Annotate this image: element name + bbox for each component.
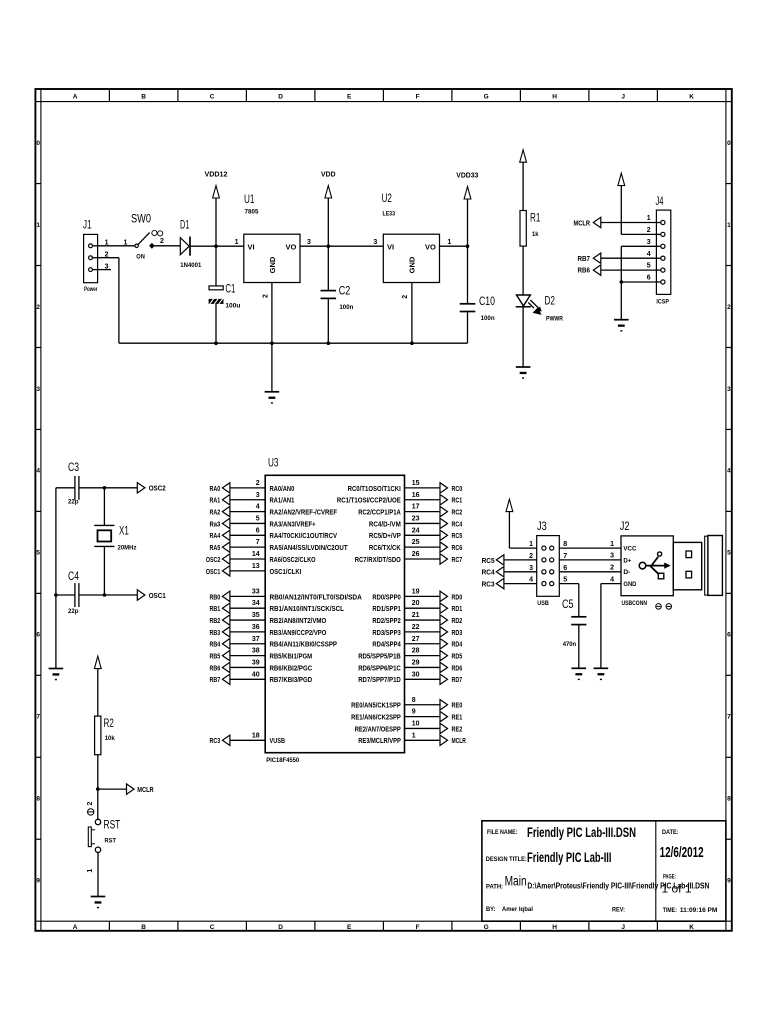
junction C4 left (54, 593, 58, 597)
power flag VDD33 (456, 173, 478, 247)
junction C1-rail (214, 341, 218, 345)
wire J1 pin2 down to ground rail (98, 258, 119, 344)
svg-text:1: 1 (412, 732, 416, 739)
svg-text:D+: D+ (623, 557, 631, 564)
svg-text:H: H (552, 924, 557, 931)
svg-text:20MHz: 20MHz (118, 545, 138, 552)
wire U1 VO to U2 VI (300, 245, 383, 247)
svg-text:7: 7 (36, 714, 40, 721)
svg-text:E: E (347, 924, 352, 931)
terminal RA2 / U3 pin 4 (210, 504, 338, 517)
svg-text:2: 2 (610, 565, 614, 572)
svg-text:B: B (141, 93, 146, 100)
svg-text:B: B (141, 924, 146, 931)
svg-text:5: 5 (256, 515, 260, 522)
svg-text:U1: U1 (244, 194, 255, 206)
svg-text:RC3: RC3 (482, 580, 495, 589)
ground symbol below J2 (594, 667, 609, 669)
svg-text:35: 35 (252, 612, 260, 619)
svg-text:RD2/SPP2: RD2/SPP2 (372, 616, 400, 625)
svg-text:RST: RST (104, 820, 121, 832)
svg-text:J3: J3 (537, 521, 547, 533)
terminal RC4 at J3 (482, 567, 537, 577)
svg-text:OSC1: OSC1 (149, 591, 166, 600)
svg-text:OSC2: OSC2 (149, 484, 166, 493)
svg-text:27: 27 (412, 636, 420, 643)
svg-text:24: 24 (412, 527, 420, 534)
svg-text:RA1/AN1: RA1/AN1 (270, 496, 295, 505)
svg-text:RC5/D+/VP: RC5/D+/VP (369, 531, 401, 540)
svg-text:RA1: RA1 (210, 496, 221, 505)
svg-text:C2: C2 (339, 286, 351, 298)
svg-text:12/6/2012: 12/6/2012 (660, 845, 704, 861)
svg-text:RD2: RD2 (452, 616, 463, 625)
ground symbol below RST (91, 896, 106, 898)
svg-text:Ra3: Ra3 (210, 519, 221, 528)
svg-text:2: 2 (87, 801, 94, 805)
svg-text:J: J (621, 93, 625, 100)
wire U1 GND down (271, 283, 273, 344)
capacitor C5 470n (562, 599, 586, 669)
svg-text:22: 22 (412, 624, 420, 631)
svg-text:0: 0 (727, 140, 731, 147)
svg-text:OSC2: OSC2 (206, 555, 220, 564)
svg-text:Friendly PIC Lab-III: Friendly PIC Lab-III (527, 850, 612, 865)
svg-text:D1: D1 (180, 220, 189, 232)
svg-text:18: 18 (252, 732, 260, 739)
wire J3 pin6 to J2 D- (559, 571, 621, 573)
svg-text:ICSP: ICSP (656, 298, 669, 305)
terminal MCLR at R2 (98, 784, 154, 794)
svg-text:D2: D2 (545, 296, 556, 308)
svg-text:G: G (484, 93, 489, 100)
svg-text:33: 33 (252, 588, 260, 595)
resistor R2 10k (95, 716, 115, 755)
terminal RB2 / U3 pin 35 (210, 612, 327, 625)
svg-text:C: C (210, 924, 215, 931)
svg-text:RC5: RC5 (482, 556, 495, 565)
svg-text:GND: GND (408, 256, 417, 273)
power flag at J3 pin1 (506, 499, 537, 548)
svg-text:1k: 1k (532, 231, 539, 238)
svg-text:LE33: LE33 (383, 210, 396, 217)
svg-text:VDD12: VDD12 (205, 171, 228, 178)
svg-text:7: 7 (727, 714, 731, 721)
wire D1 to U1 VI (190, 245, 244, 247)
svg-text:RD0/SPP0: RD0/SPP0 (372, 592, 400, 601)
wire D2 to ground (522, 307, 524, 367)
svg-text:C1: C1 (225, 283, 235, 295)
wire J4 pin3 to ground (621, 246, 656, 319)
svg-text:9: 9 (727, 878, 731, 885)
svg-text:7: 7 (563, 553, 567, 560)
svg-text:RST: RST (105, 837, 117, 844)
svg-text:BY:: BY: (486, 906, 496, 913)
svg-text:30: 30 (412, 671, 420, 678)
svg-text:3: 3 (529, 565, 533, 572)
ground symbol below U1 (265, 343, 280, 403)
svg-text:PIC18F4550: PIC18F4550 (266, 757, 299, 764)
terminal RC3 at J3 (482, 578, 537, 588)
svg-text:J1: J1 (83, 220, 92, 232)
svg-text:1N4001: 1N4001 (180, 262, 201, 269)
power flag VDD (321, 171, 336, 246)
svg-text:A: A (73, 93, 78, 100)
svg-text:3: 3 (727, 386, 731, 393)
wire U2 VO to VDD33 node (440, 245, 468, 247)
svg-text:VDD: VDD (321, 171, 336, 178)
title block (482, 821, 726, 921)
svg-text:RC2/CCP1/P1A: RC2/CCP1/P1A (358, 508, 401, 517)
svg-text:USB: USB (537, 600, 549, 607)
svg-text:19: 19 (412, 588, 420, 595)
resistor R1 1k (520, 211, 540, 247)
svg-text:FILE NAME:: FILE NAME: (487, 829, 518, 836)
terminal RC3 / U3 pin 18 VUSB (210, 732, 286, 745)
wire U2 GND down (411, 283, 413, 344)
ground symbol below C5 (572, 667, 587, 669)
svg-text:D: D (278, 93, 283, 100)
svg-text:C: C (210, 93, 215, 100)
svg-text:U2: U2 (382, 193, 392, 205)
svg-text:ON: ON (136, 253, 145, 260)
svg-text:H: H (552, 93, 557, 100)
svg-text:6: 6 (563, 565, 567, 572)
svg-text:RC4/D-/VM: RC4/D-/VM (369, 519, 401, 528)
power flag above R1 (520, 150, 527, 211)
svg-text:MCLR: MCLR (452, 736, 467, 745)
svg-text:RE2: RE2 (452, 724, 463, 733)
svg-text:RD7/SPP7/P1D: RD7/SPP7/P1D (358, 675, 401, 684)
svg-text:PWWR: PWWR (546, 315, 563, 322)
terminal RC5 / U3 pin 24 (369, 527, 462, 540)
svg-text:SW0: SW0 (131, 214, 151, 226)
svg-text:29: 29 (412, 659, 420, 666)
wire J1 pin3 stub (98, 269, 111, 271)
terminal RC0 / U3 pin 15 (348, 480, 463, 493)
svg-text:3: 3 (610, 553, 614, 560)
svg-text:21: 21 (412, 612, 420, 619)
svg-text:RD3/SPP3: RD3/SPP3 (372, 628, 400, 637)
wire J2 GND to ground (601, 584, 621, 669)
svg-text:C3: C3 (68, 462, 79, 474)
svg-text:25: 25 (412, 539, 420, 546)
svg-text:1: 1 (447, 239, 451, 246)
power flag above R2 (94, 656, 101, 716)
svg-text:DESIGN TITLE:: DESIGN TITLE: (486, 856, 527, 863)
terminal RC1 / U3 pin 16 (337, 492, 462, 505)
svg-text:VCC: VCC (623, 546, 636, 553)
svg-text:C5: C5 (562, 599, 574, 611)
svg-text:4: 4 (36, 468, 40, 475)
svg-text:36: 36 (252, 624, 260, 631)
svg-text:470n: 470n (563, 641, 577, 648)
wire crystal ground leg (55, 488, 57, 669)
svg-text:RA2/AN2/VREF-/CVREF: RA2/AN2/VREF-/CVREF (270, 508, 338, 517)
svg-text:Friendly PIC Lab-III.DSN: Friendly PIC Lab-III.DSN (527, 825, 636, 840)
svg-text:RC7/RX/DT/SDO: RC7/RX/DT/SDO (355, 555, 401, 564)
svg-text:6: 6 (647, 275, 651, 282)
svg-text:USBCONN: USBCONN (622, 600, 648, 607)
svg-text:Main: Main (505, 874, 527, 889)
svg-text:10: 10 (412, 720, 420, 727)
svg-text:2: 2 (727, 304, 731, 311)
svg-text:RB5/KBI1/PGM: RB5/KBI1/PGM (270, 652, 313, 661)
svg-text:RC2: RC2 (452, 508, 463, 517)
wire J4 pin2 (621, 233, 656, 235)
terminal RD0 / U3 pin 19 (372, 588, 462, 601)
terminal RD1 / U3 pin 20 (372, 600, 462, 613)
svg-text:100n: 100n (339, 304, 353, 311)
terminal RD6 / U3 pin 29 (358, 659, 462, 672)
svg-text:RC0: RC0 (452, 484, 463, 493)
svg-text:4: 4 (610, 576, 614, 583)
terminal RC2 / U3 pin 17 (358, 504, 462, 517)
capacitor C3 22p (68, 462, 79, 506)
svg-text:8: 8 (412, 697, 416, 704)
junction J4 gnd net (620, 280, 624, 284)
svg-text:RA4/T0CKI/C1OUT/RCV: RA4/T0CKI/C1OUT/RCV (270, 531, 338, 540)
svg-text:11:09:16 PM: 11:09:16 PM (680, 907, 718, 914)
terminal RB0 / U3 pin 33 (210, 588, 362, 601)
svg-text:RD6/SPP6/P1C: RD6/SPP6/P1C (358, 663, 401, 672)
svg-text:1 of 1: 1 of 1 (662, 882, 692, 896)
terminal RD3 / U3 pin 22 (372, 624, 462, 637)
svg-text:VUSB: VUSB (270, 736, 286, 745)
terminal RA4 / U3 pin 6 (210, 527, 338, 540)
svg-text:RB2: RB2 (210, 616, 221, 625)
svg-text:38: 38 (252, 648, 260, 655)
connector J1 (83, 220, 109, 293)
svg-text:RB3/AN9/CCP2/VPO: RB3/AN9/CCP2/VPO (270, 628, 327, 637)
svg-text:RD0: RD0 (452, 592, 463, 601)
svg-text:VDD33: VDD33 (456, 173, 478, 180)
terminal OSC2 / U3 pin 14 (206, 551, 316, 564)
svg-text:34: 34 (252, 600, 260, 607)
svg-text:VO: VO (425, 242, 436, 251)
svg-text:RB0/AN12/INT0/FLT0/SDI/SDA: RB0/AN12/INT0/FLT0/SDI/SDA (270, 592, 362, 601)
svg-text:F: F (416, 924, 420, 931)
svg-text:RC5: RC5 (452, 531, 463, 540)
svg-text:RA2: RA2 (210, 508, 221, 517)
svg-text:39: 39 (252, 659, 260, 666)
USB trident icon (639, 552, 670, 579)
svg-text:E: E (347, 93, 352, 100)
terminal RB6 at J4 (578, 265, 657, 275)
junction X1 bottom (103, 593, 107, 597)
terminal RA1 / U3 pin 3 (210, 492, 295, 505)
terminal RC5 at J3 (482, 555, 537, 565)
svg-text:RB1/AN10/INT1/SCK/SCL: RB1/AN10/INT1/SCK/SCL (270, 604, 345, 613)
svg-text:J: J (621, 924, 625, 931)
terminal RB3 / U3 pin 36 (210, 624, 327, 637)
svg-text:5: 5 (36, 550, 40, 557)
svg-text:RB6/KBI2/PGC: RB6/KBI2/PGC (270, 663, 313, 672)
power flag at J4 pin2 (618, 173, 625, 234)
svg-text:D-: D- (623, 569, 630, 576)
svg-text:VO: VO (285, 242, 296, 251)
svg-text:1: 1 (235, 239, 239, 246)
svg-text:1: 1 (529, 541, 533, 548)
terminal OSC2 (137, 483, 165, 493)
svg-text:RA5: RA5 (210, 543, 221, 552)
terminal RB7 / U3 pin 40 (210, 671, 313, 684)
svg-text:RA0/AN0: RA0/AN0 (270, 484, 295, 493)
junction X1 top (103, 486, 107, 490)
svg-text:4: 4 (529, 577, 533, 584)
svg-text:15: 15 (412, 480, 420, 487)
svg-text:RB6: RB6 (578, 266, 591, 275)
svg-text:40: 40 (252, 671, 260, 678)
svg-text:Power: Power (84, 286, 98, 293)
svg-text:16: 16 (412, 492, 420, 499)
junction node VDD33 (466, 244, 470, 248)
svg-text:3: 3 (36, 386, 40, 393)
svg-text:RE3/MCLR/VPP: RE3/MCLR/VPP (358, 736, 401, 745)
polarity marks (656, 604, 672, 610)
push button RST (87, 801, 120, 872)
terminal Ra3 / U3 pin 5 (210, 515, 316, 528)
terminal RE1 / U3 pin 9 (351, 709, 462, 722)
wire SW0 to D1 (154, 245, 180, 247)
svg-text:G: G (484, 924, 489, 931)
junction U2GND-rail (410, 341, 414, 345)
svg-text:DATE:: DATE: (662, 829, 679, 836)
svg-text:5: 5 (647, 263, 651, 270)
svg-text:J2: J2 (620, 521, 630, 533)
diode D1 1N4001 (180, 220, 202, 269)
svg-text:Amer Iqbal: Amer Iqbal (502, 906, 533, 913)
svg-text:RC1/T1OSI/CCP2/UOE: RC1/T1OSI/CCP2/UOE (337, 496, 401, 505)
svg-text:RB5: RB5 (210, 652, 221, 661)
svg-text:RE1: RE1 (452, 713, 463, 722)
ground symbol below D2 (516, 366, 531, 368)
capacitor C2 100n (321, 246, 354, 343)
svg-text:D: D (278, 924, 283, 931)
terminal RC7 / U3 pin 26 (355, 551, 463, 564)
junction node VDD (327, 244, 331, 248)
terminal RA0 / U3 pin 2 (210, 480, 295, 493)
svg-text:26: 26 (412, 551, 420, 558)
svg-text:RB3: RB3 (210, 628, 221, 637)
svg-text:RC4: RC4 (452, 519, 463, 528)
svg-text:RB4: RB4 (210, 640, 221, 649)
svg-text:K: K (689, 924, 694, 931)
svg-text:J4: J4 (656, 196, 664, 208)
svg-text:5: 5 (727, 550, 731, 557)
svg-text:PATH:: PATH: (486, 883, 503, 890)
svg-text:RE1/AN6/CK2SPP: RE1/AN6/CK2SPP (351, 713, 401, 722)
capacitor C1 100u (209, 246, 241, 343)
svg-text:R2: R2 (104, 718, 114, 730)
wire J3 pin8 to J2 VCC (559, 547, 621, 549)
svg-text:6: 6 (256, 527, 260, 534)
svg-text:3: 3 (256, 492, 260, 499)
regulator U2 LE33 (373, 193, 451, 299)
svg-text:GND: GND (268, 256, 277, 273)
svg-text:RB7/KBI3/PGD: RB7/KBI3/PGD (270, 675, 313, 684)
power flag VDD12 (205, 171, 228, 246)
svg-text:RC7: RC7 (452, 555, 463, 564)
svg-text:2: 2 (529, 553, 533, 560)
svg-text:RB7: RB7 (578, 254, 591, 263)
ground symbol crystal (49, 668, 64, 670)
terminal RC4 / U3 pin 23 (369, 515, 463, 528)
svg-text:1: 1 (87, 869, 94, 873)
svg-text:2: 2 (36, 304, 40, 311)
svg-text:REV:: REV: (612, 907, 625, 914)
svg-text:5: 5 (563, 577, 567, 584)
regulator U1 7805 (235, 194, 311, 298)
svg-text:MCLR: MCLR (574, 218, 591, 227)
svg-text:8: 8 (563, 541, 567, 548)
svg-text:1: 1 (647, 215, 651, 222)
wire J3 pin5 to C5 (559, 584, 579, 617)
wire C4 left (56, 594, 75, 596)
svg-text:MCLR: MCLR (137, 785, 154, 794)
terminal RE0 / U3 pin 8 (351, 697, 462, 710)
svg-text:3: 3 (647, 239, 651, 246)
svg-text:RC6/TX/CK: RC6/TX/CK (369, 543, 402, 552)
svg-text:RC6: RC6 (452, 543, 463, 552)
svg-text:RB4/AN11/KBI0/CSSPP: RB4/AN11/KBI0/CSSPP (270, 640, 338, 649)
terminal RB4 / U3 pin 37 (210, 636, 338, 649)
svg-text:A: A (73, 924, 78, 931)
svg-text:22p: 22p (68, 608, 79, 615)
svg-text:22p: 22p (68, 499, 79, 506)
svg-text:VI: VI (248, 242, 255, 251)
wire J4 pin6 (621, 281, 656, 283)
svg-text:10k: 10k (105, 735, 115, 742)
terminal RD4 / U3 pin 27 (372, 636, 462, 649)
svg-text:2: 2 (160, 238, 164, 245)
terminal RB1 / U3 pin 34 (210, 600, 345, 613)
svg-text:2: 2 (256, 480, 260, 487)
connector J3 USB header (529, 521, 567, 607)
svg-text:X1: X1 (119, 525, 129, 537)
terminal RA5 / U3 pin 7 (210, 539, 349, 552)
svg-text:RE2/AN7/OESPP: RE2/AN7/OESPP (355, 724, 401, 733)
svg-text:6: 6 (727, 632, 731, 639)
svg-text:2: 2 (647, 227, 651, 234)
svg-text:VI: VI (387, 242, 394, 251)
svg-text:RB2/AN8/INT2/VMO: RB2/AN8/INT2/VMO (270, 616, 327, 625)
svg-text:2: 2 (402, 295, 409, 299)
wire RST to ground (97, 853, 99, 897)
junction U1GND-rail (270, 341, 274, 345)
svg-text:U3: U3 (268, 457, 279, 469)
junction C2-rail (327, 341, 331, 345)
wire X1 bottom (103, 546, 105, 595)
svg-text:RD7: RD7 (452, 675, 463, 684)
connector J4 ICSP (647, 196, 671, 305)
svg-text:RD4: RD4 (452, 640, 463, 649)
svg-text:4: 4 (256, 504, 260, 511)
svg-text:9: 9 (412, 709, 416, 716)
svg-text:K: K (689, 93, 694, 100)
svg-text:TIME:: TIME: (663, 907, 677, 914)
svg-text:RB1: RB1 (210, 604, 221, 613)
capacitor C10 100n (460, 246, 495, 343)
switch SW0 (124, 214, 165, 261)
ground rail wire (119, 342, 468, 344)
svg-text:RD5: RD5 (452, 652, 463, 661)
terminal OSC1 / U3 pin 13 (206, 563, 301, 576)
svg-text:RA0: RA0 (210, 484, 221, 493)
svg-text:17: 17 (412, 504, 420, 511)
terminal RE2 / U3 pin 10 (355, 720, 463, 733)
svg-text:9: 9 (36, 878, 40, 885)
